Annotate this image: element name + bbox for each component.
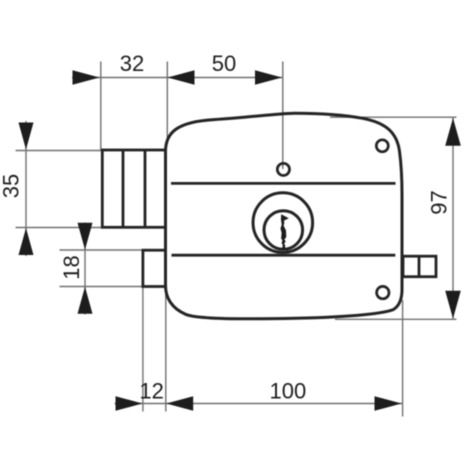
svg-text:97: 97 (427, 190, 452, 214)
svg-text:100: 100 (270, 379, 307, 404)
svg-text:18: 18 (59, 255, 84, 279)
svg-text:12: 12 (139, 379, 163, 404)
svg-text:35: 35 (0, 174, 24, 198)
svg-text:32: 32 (120, 51, 144, 76)
svg-text:50: 50 (212, 51, 236, 76)
